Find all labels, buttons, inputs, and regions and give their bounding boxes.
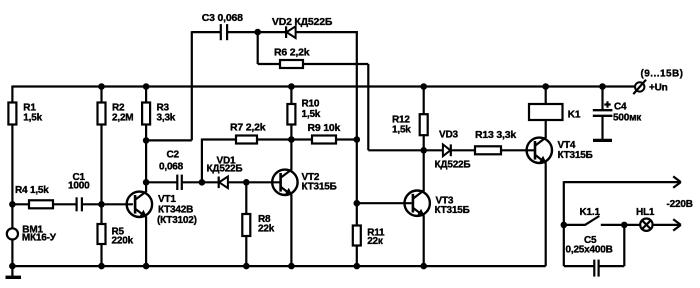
svg-text:VD2 КД522Б: VD2 КД522Б: [272, 16, 333, 28]
svg-text:22k: 22k: [258, 224, 275, 235]
svg-text:500мк: 500мк: [613, 113, 642, 124]
svg-text:HL1: HL1: [636, 207, 655, 218]
svg-text:КТ315Б: КТ315Б: [558, 150, 593, 161]
svg-text:R4 1,5k: R4 1,5k: [15, 185, 49, 196]
svg-text:R9 10k: R9 10k: [308, 122, 341, 134]
svg-text:C2: C2: [167, 150, 180, 161]
svg-text:3,3k: 3,3k: [157, 113, 176, 124]
svg-text:R6 2,2k: R6 2,2k: [274, 47, 310, 59]
svg-text:1000: 1000: [68, 181, 90, 192]
svg-text:2,2M: 2,2M: [112, 113, 133, 124]
svg-text:1,5k: 1,5k: [392, 125, 411, 136]
svg-text:22к: 22к: [367, 236, 384, 247]
svg-text:(9...15В): (9...15В): [641, 69, 684, 80]
svg-text:КТ315Б: КТ315Б: [302, 182, 337, 193]
svg-text:R7 2,2k: R7 2,2k: [230, 122, 266, 134]
svg-text:K1: K1: [568, 110, 581, 121]
svg-text:-220В: -220В: [667, 199, 693, 210]
svg-text:K1.1: K1.1: [580, 207, 601, 218]
svg-text:1,5k: 1,5k: [302, 109, 321, 120]
svg-text:КД522Б: КД522Б: [207, 164, 243, 175]
svg-text:0,25x400В: 0,25x400В: [566, 245, 613, 256]
svg-text:C4: C4: [614, 102, 627, 113]
svg-text:VD3: VD3: [439, 130, 458, 141]
svg-text:КД522Б: КД522Б: [435, 160, 471, 171]
svg-text:R13 3,3k: R13 3,3k: [475, 129, 516, 141]
svg-text:КТ342В: КТ342В: [158, 204, 193, 215]
svg-text:+Un: +Un: [649, 83, 668, 94]
svg-text:МК16-У: МК16-У: [22, 233, 57, 244]
svg-text:1,5k: 1,5k: [23, 113, 42, 124]
svg-text:R10: R10: [302, 99, 320, 110]
svg-text:КТ315Б: КТ315Б: [435, 205, 470, 216]
svg-text:220k: 220k: [112, 236, 134, 247]
svg-text:(КТ3102): (КТ3102): [157, 215, 197, 226]
svg-text:C3 0,068: C3 0,068: [202, 12, 243, 24]
svg-text:0,068: 0,068: [159, 162, 184, 173]
